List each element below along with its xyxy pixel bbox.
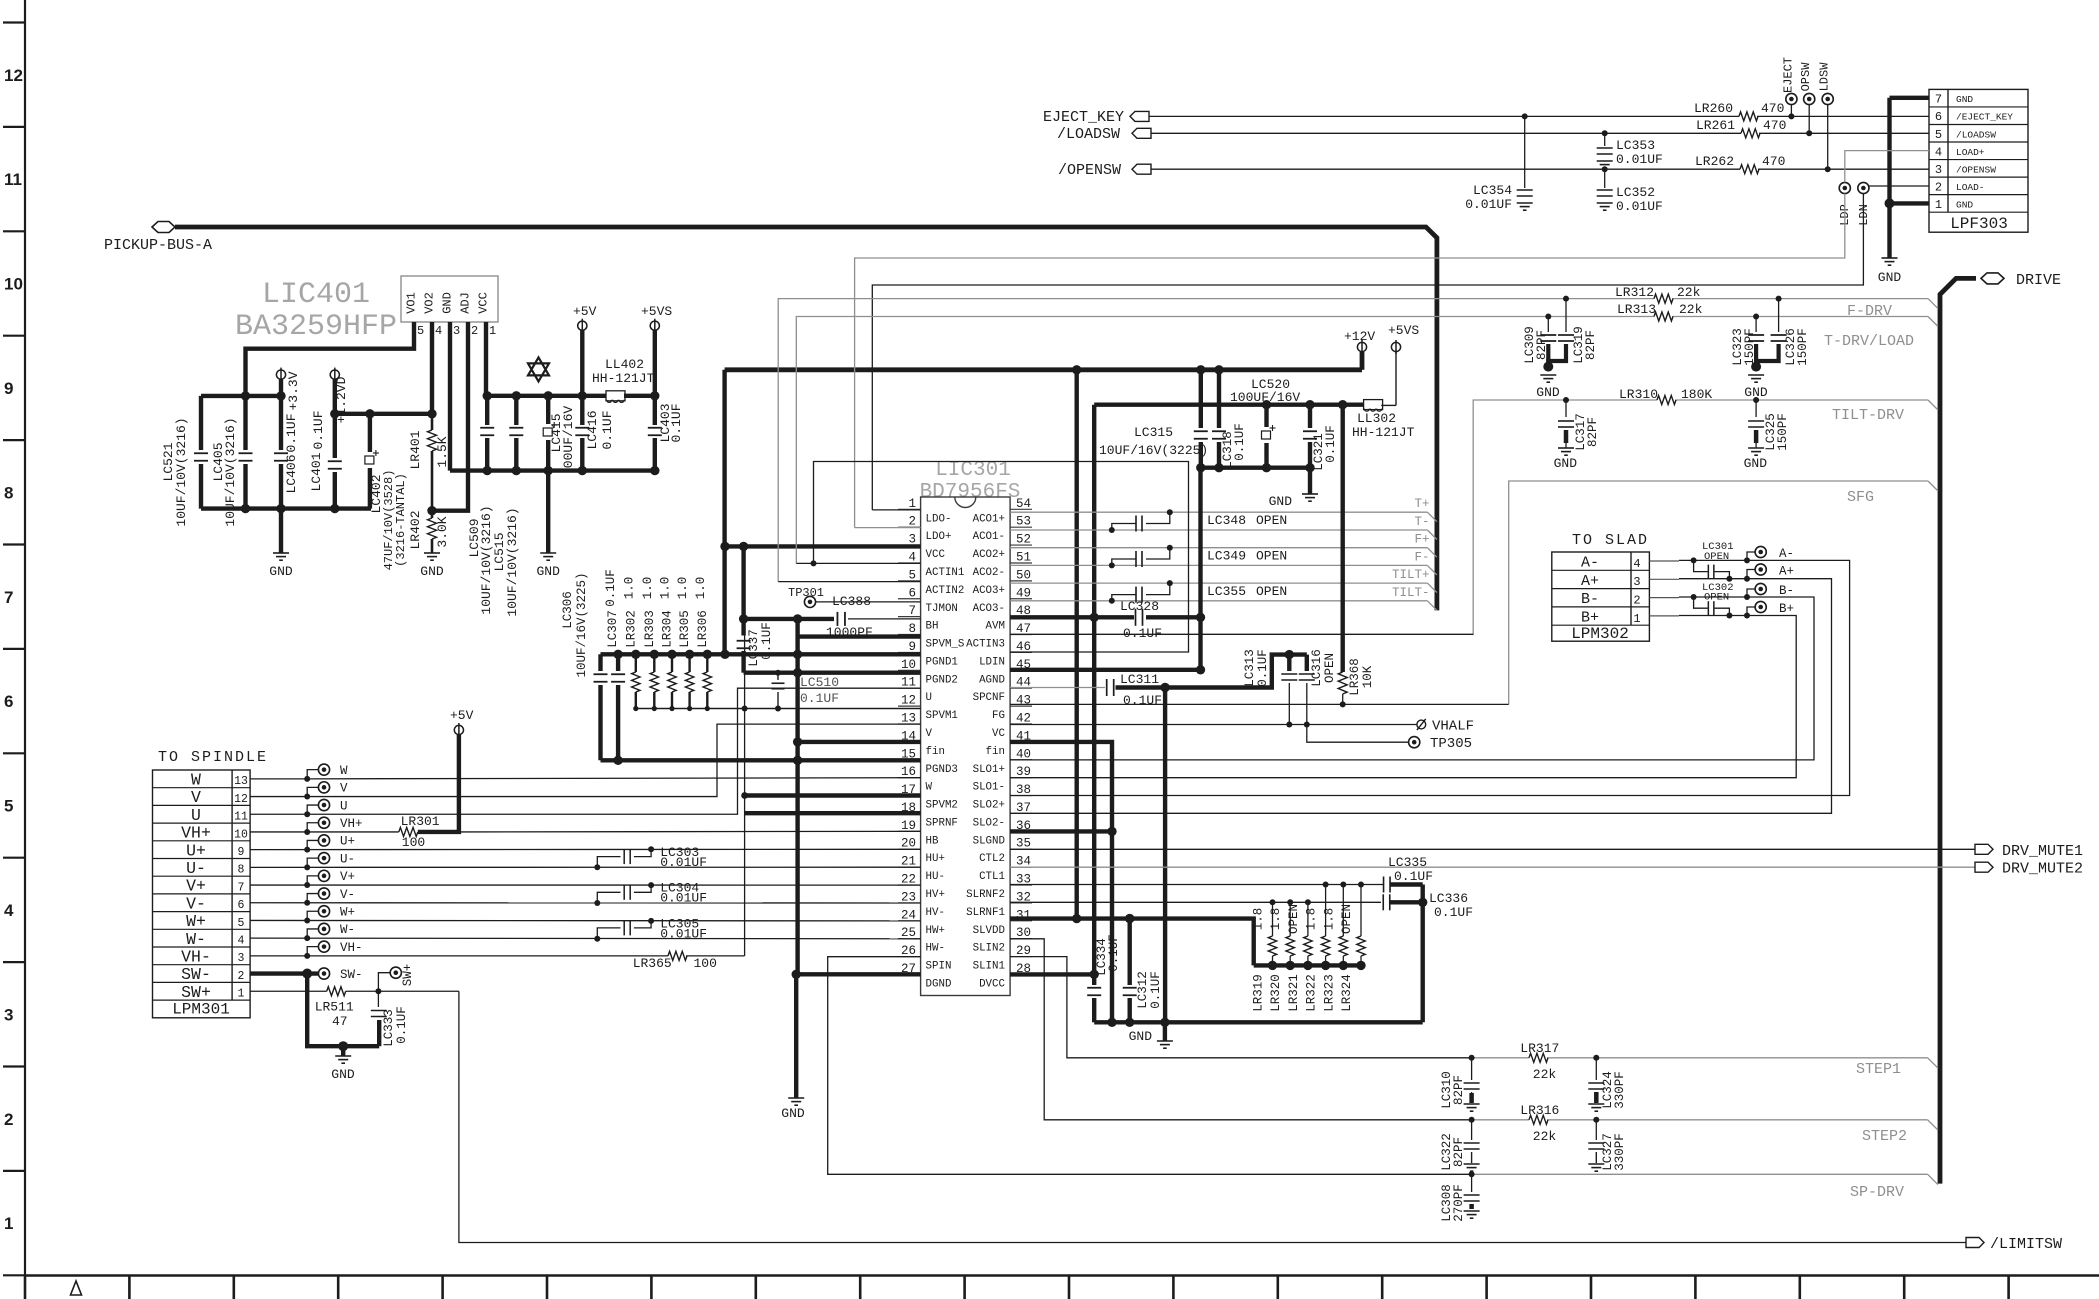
svg-text:42: 42	[1016, 711, 1031, 725]
svg-text:5: 5	[1935, 128, 1942, 142]
wire A- to SLO2+ pin38 loop	[1010, 560, 1850, 795]
wire W- row to HW- pin25	[250, 937, 921, 940]
wire ACTIN1 pin4	[796, 560, 920, 566]
svg-text:7: 7	[238, 881, 245, 894]
capacitor LC315 10UF/16V(3225)	[1099, 370, 1208, 468]
svg-text:SLO2-: SLO2-	[973, 817, 1005, 829]
wire VC pin42 VHALF net	[1010, 722, 1417, 728]
svg-text:0.01UF: 0.01UF	[660, 926, 707, 941]
ground GND for LC415 branch	[536, 471, 560, 579]
svg-text:1: 1	[4, 1214, 13, 1233]
svg-text:U: U	[191, 806, 201, 825]
svg-text:VH+: VH+	[340, 817, 363, 831]
svg-text:82PF: 82PF	[1452, 1075, 1466, 1105]
testpoint SW-	[318, 968, 362, 982]
svg-text:12: 12	[234, 793, 248, 806]
svg-text:6: 6	[908, 586, 916, 600]
supply +5V terminal	[573, 304, 597, 396]
svg-text:49: 49	[1016, 586, 1031, 600]
svg-text:10UF/16V(3225): 10UF/16V(3225)	[575, 572, 589, 677]
wire LIC401 pin4 VO2 down	[430, 322, 434, 414]
svg-text:00UF/16V: 00UF/16V	[561, 406, 576, 469]
capacitor LC352 0.01UF	[1597, 169, 1663, 214]
svg-text:LC337: LC337	[747, 629, 761, 667]
svg-text:0.1UF: 0.1UF	[1149, 971, 1163, 1009]
wire VCC pin3 net	[720, 542, 920, 551]
wire SW- thick to gnd	[250, 969, 379, 1052]
ground GND LPF303	[1878, 258, 1902, 285]
svg-text:AGND: AGND	[979, 674, 1005, 686]
wire LDO+ pin2	[855, 527, 921, 529]
wire fin pin14	[798, 740, 921, 744]
capacitor LC324 330PF	[1588, 1058, 1627, 1111]
capacitor LC319 82PF	[1548, 299, 1598, 367]
capacitor LC304 0.01UF	[594, 881, 707, 906]
wire W row to pin16	[250, 778, 921, 779]
wire thick vertical x1130 LC312	[1125, 914, 1134, 1027]
svg-text:SW-: SW-	[340, 968, 363, 982]
resistor LR368 10K	[1338, 658, 1375, 704]
testpoint B+	[1747, 601, 1794, 616]
svg-text:STEP2: STEP2	[1862, 1128, 1907, 1145]
svg-text:LC333: LC333	[382, 1009, 396, 1047]
wire LC315 group bottom rail	[1196, 463, 1315, 472]
wire DVCC pin28	[1010, 972, 1094, 976]
svg-text:LR316: LR316	[1520, 1103, 1559, 1118]
svg-text:12: 12	[901, 694, 916, 708]
svg-text:OPSW: OPSW	[1799, 62, 1813, 92]
svg-text:5: 5	[908, 568, 916, 582]
svg-text:BH: BH	[926, 621, 939, 633]
resistor LR313 22k	[1617, 302, 1703, 321]
capacitor LC333 0.1UF	[371, 991, 409, 1047]
svg-text:EJECT_KEY: EJECT_KEY	[1043, 109, 1124, 126]
svg-text:ACTIN1: ACTIN1	[926, 567, 965, 579]
wire LPM302 pin1 B+ row	[1649, 613, 1757, 619]
capacitor LC416 0.1UF	[575, 396, 615, 471]
capacitor LC311 0.1UF on SPCNF	[1010, 672, 1170, 708]
wire DGND pin27	[792, 970, 921, 979]
svg-text:LR304: LR304	[661, 610, 675, 648]
svg-text:LL402: LL402	[605, 357, 644, 372]
wire LR301 to +5V	[418, 735, 459, 832]
svg-text:34: 34	[1016, 855, 1031, 869]
svg-text:1: 1	[1935, 198, 1942, 212]
svg-text:/OPENSW: /OPENSW	[1956, 164, 1996, 175]
capacitor LC317 82PF	[1554, 400, 1600, 471]
svg-text:0.01UF: 0.01UF	[1616, 152, 1663, 167]
svg-text:3: 3	[238, 952, 245, 965]
svg-text:LR401: LR401	[408, 430, 423, 469]
svg-text:B-: B-	[1581, 591, 1599, 608]
resistor bank bottom rail	[1254, 961, 1366, 970]
svg-text:ACO1+: ACO1+	[973, 513, 1005, 525]
wire LDP to LOAD+ and LDO+	[855, 151, 1929, 528]
svg-text:ACO3+: ACO3+	[973, 585, 1005, 597]
svg-text:SLRNF1: SLRNF1	[966, 907, 1005, 919]
wire CTL2 pin35 DRV_MUTE1	[1010, 848, 1975, 850]
svg-text:LC306: LC306	[561, 591, 575, 629]
svg-text:LR324: LR324	[1340, 974, 1354, 1012]
svg-text:U-: U-	[340, 852, 355, 866]
svg-text:2: 2	[1633, 594, 1640, 608]
ground GND LC315 group	[1269, 468, 1318, 509]
wire LC335/LC336 to gnd rail	[1418, 885, 1427, 1023]
wire U- row to HU- pin21	[250, 866, 921, 868]
svg-text:22: 22	[901, 872, 916, 886]
svg-text:T+: T+	[1414, 497, 1429, 511]
svg-text:LPF303: LPF303	[1950, 215, 2008, 233]
ground GND for LC406 branch	[269, 509, 293, 579]
svg-text:7: 7	[1935, 93, 1942, 107]
capacitor LC301 OPEN	[1694, 541, 1734, 579]
wire +1.2VD rail	[330, 409, 437, 418]
svg-text:4: 4	[4, 901, 14, 920]
resistor LR511 47	[315, 987, 354, 1029]
svg-text:LC354: LC354	[1473, 183, 1512, 198]
inductor LL302 HH-121JT	[1352, 400, 1415, 440]
svg-text:SPIN: SPIN	[926, 961, 952, 973]
wire PGND2 pin10	[744, 670, 921, 676]
svg-text:150PF: 150PF	[1776, 413, 1790, 451]
svg-text:51: 51	[1016, 550, 1031, 564]
wire PGND vertical bus x798	[793, 619, 802, 974]
svg-text:3.0K: 3.0K	[435, 516, 450, 547]
wire U+ row to HU+ pin20	[250, 848, 921, 850]
svg-text:LR313: LR313	[1617, 302, 1656, 317]
svg-text:LC315: LC315	[1134, 425, 1173, 440]
svg-text:1.0: 1.0	[676, 577, 690, 600]
terminal /LOADSW	[1057, 126, 1151, 143]
wire B+ to SLO1- pin39 loop	[1010, 616, 1796, 778]
svg-text:0.1UF: 0.1UF	[1123, 626, 1162, 641]
svg-text:43: 43	[1016, 694, 1031, 708]
svg-text:0.01UF: 0.01UF	[1465, 197, 1512, 212]
svg-text:SW+: SW+	[181, 983, 211, 1002]
svg-text:GND: GND	[1956, 94, 1973, 105]
svg-text:470: 470	[1763, 118, 1786, 133]
svg-text:SFG: SFG	[1847, 489, 1874, 506]
svg-text:DRV_MUTE2: DRV_MUTE2	[2002, 861, 2083, 878]
wire LIC401 pin5 VO1 to +3.3V rail	[246, 322, 415, 396]
svg-text:LR317: LR317	[1520, 1041, 1559, 1056]
svg-text:GND: GND	[1129, 1029, 1153, 1044]
ground GND SW-	[331, 1046, 355, 1082]
capacitor LC406 0.1UF	[274, 396, 299, 509]
svg-text:1.8: 1.8	[1322, 908, 1336, 931]
drawing frame left ruler	[3, 0, 25, 1276]
capacitor LC318 0.1UF	[1212, 370, 1247, 469]
svg-text:270PF: 270PF	[1452, 1184, 1466, 1222]
svg-text:ACO2+: ACO2+	[973, 549, 1005, 561]
wire LPF303 GND bus	[1885, 98, 1930, 258]
svg-text:DRIVE: DRIVE	[2016, 272, 2061, 289]
wire DRIVE bus vertical	[1940, 278, 1976, 1183]
testpoint B-	[1747, 583, 1794, 598]
ground GND for DGND	[781, 974, 805, 1121]
svg-text:0.1UF: 0.1UF	[669, 403, 684, 442]
svg-text:GND: GND	[1956, 199, 1973, 210]
svg-text:5: 5	[4, 797, 13, 816]
resistor LR401 1.5K	[408, 414, 450, 516]
svg-text:ACTIN2: ACTIN2	[926, 585, 965, 597]
svg-text:HH-121JT: HH-121JT	[1352, 425, 1415, 440]
svg-text:7: 7	[908, 604, 916, 618]
svg-text:11: 11	[4, 170, 22, 189]
supply +1.2VD	[330, 368, 349, 424]
wire TILT- row	[1010, 586, 1437, 611]
svg-text:22k: 22k	[1533, 1129, 1557, 1144]
ground GND LC323/LC326	[1744, 362, 1768, 400]
svg-text:50: 50	[1016, 568, 1031, 582]
wire SLRNF1 pin32 row	[1010, 899, 1381, 905]
capacitor LC335 0.1UF	[1384, 855, 1433, 893]
svg-text:TJMON: TJMON	[926, 603, 958, 615]
capacitor LC354 0.01UF	[1465, 116, 1533, 212]
svg-text:LR511: LR511	[315, 1000, 354, 1015]
capacitor LC323 150PF	[1731, 317, 1764, 367]
svg-text:LR368: LR368	[1348, 658, 1362, 696]
svg-text:U: U	[340, 799, 348, 813]
svg-text:6: 6	[238, 899, 245, 912]
svg-text:V: V	[926, 728, 933, 740]
svg-text:1: 1	[489, 324, 496, 338]
capacitor LC349 OPEN	[1109, 545, 1287, 569]
wire SPCNF vertical to gnd rail	[1163, 688, 1167, 1023]
svg-text:9: 9	[4, 379, 13, 398]
svg-text:TILT-DRV: TILT-DRV	[1832, 407, 1904, 424]
svg-text:LR312: LR312	[1615, 285, 1654, 300]
svg-text:GND: GND	[420, 564, 444, 579]
svg-text:ACO2-: ACO2-	[973, 567, 1005, 579]
svg-text:TO SLAD: TO SLAD	[1572, 532, 1649, 549]
svg-text:1.0: 1.0	[659, 577, 673, 600]
terminal /OPENSW	[1058, 162, 1151, 179]
wire SFG net	[1509, 481, 1938, 704]
svg-text:54: 54	[1016, 497, 1031, 511]
svg-text:CTL1: CTL1	[979, 871, 1005, 883]
svg-text:40: 40	[1016, 747, 1031, 761]
svg-text:2: 2	[908, 515, 916, 529]
wire LC520 rail y404	[1094, 400, 1363, 409]
svg-text:100: 100	[694, 956, 717, 971]
svg-text:SLIN2: SLIN2	[973, 943, 1005, 955]
svg-text:FG: FG	[992, 710, 1005, 722]
svg-text:LC312: LC312	[1136, 971, 1150, 1009]
capacitor LC405 10UF/10V(3216)	[211, 396, 253, 527]
svg-text:24: 24	[901, 908, 916, 922]
wire LDIN pin46 loop	[814, 462, 1189, 653]
wire PICKUP-BUS-A bus	[175, 227, 1437, 610]
capacitor LC328 0.1UF	[1120, 599, 1162, 641]
svg-text:23: 23	[901, 890, 916, 904]
testpoint OPSW	[1799, 62, 1815, 133]
wire thick x1343 from rail404 to LR368	[1340, 405, 1344, 672]
capacitor LC313 0.1UF	[1243, 649, 1297, 724]
svg-text:LR365: LR365	[633, 956, 672, 971]
svg-text:4: 4	[1633, 557, 1640, 571]
capacitor LC348 OPEN	[1109, 509, 1287, 533]
svg-text:/LOADSW: /LOADSW	[1057, 126, 1120, 143]
capacitor LC308 270PF	[1440, 1174, 1480, 1221]
svg-text:7: 7	[4, 588, 13, 607]
wire thick vertical x1112 fin-gnd	[1010, 742, 1117, 1027]
svg-text:U-: U-	[186, 859, 206, 878]
svg-text:TP305: TP305	[1430, 736, 1472, 752]
wire LPM302 pin4 A- row	[1649, 557, 1757, 563]
svg-text:EJECT: EJECT	[1781, 57, 1795, 93]
svg-text:9: 9	[238, 846, 245, 859]
svg-text:W: W	[191, 771, 201, 790]
svg-text:DGND: DGND	[926, 978, 952, 990]
svg-text:10: 10	[4, 275, 23, 294]
testpoint LDSW	[1818, 62, 1834, 169]
svg-text:LC335: LC335	[1388, 855, 1427, 870]
svg-text:LR303: LR303	[643, 610, 657, 648]
svg-text:LC355: LC355	[1207, 584, 1246, 599]
svg-text:330PF: 330PF	[1613, 1071, 1627, 1109]
svg-text:VCC: VCC	[477, 292, 491, 314]
svg-text:0.1UF: 0.1UF	[800, 691, 839, 706]
svg-text:82PF: 82PF	[1584, 330, 1598, 360]
svg-text:2: 2	[471, 324, 478, 338]
svg-text:LR261: LR261	[1696, 118, 1735, 133]
svg-text:0.01UF: 0.01UF	[660, 891, 707, 906]
svg-text:HH-121JT: HH-121JT	[592, 371, 655, 386]
svg-text:53: 53	[1016, 515, 1031, 529]
wire LIC401 pin1 VCC down	[484, 322, 488, 396]
svg-text:LC353: LC353	[1616, 138, 1655, 153]
svg-text:10UF/10V(3216): 10UF/10V(3216)	[174, 417, 189, 526]
wire LPM302 pin3 A+ row	[1649, 576, 1757, 582]
wire AVM pin48 net with LC328	[1010, 613, 1205, 622]
svg-text:A+: A+	[1581, 573, 1599, 590]
svg-text:3: 3	[453, 324, 460, 338]
svg-text:A-: A-	[1581, 555, 1599, 572]
svg-text:VO1: VO1	[405, 292, 419, 314]
capacitor LC509 10UF/10V(3216)	[467, 396, 494, 615]
svg-text:HV-: HV-	[926, 907, 945, 919]
svg-text:TO SPINDLE: TO SPINDLE	[158, 749, 268, 766]
ground GND LC309/LC319	[1536, 362, 1560, 400]
svg-text:LR321: LR321	[1287, 974, 1301, 1012]
resistor LR260 470	[1694, 101, 1784, 121]
testpoint LDP	[1838, 182, 1852, 225]
terminal DRV_MUTE2	[1975, 861, 2083, 878]
svg-text:GND: GND	[1878, 270, 1902, 285]
resistor LR262 470	[1695, 154, 1785, 174]
svg-text:VO2: VO2	[423, 292, 437, 314]
svg-text:13: 13	[234, 775, 248, 788]
svg-text:U: U	[926, 692, 932, 704]
svg-text:2: 2	[238, 970, 245, 983]
svg-text:26: 26	[901, 944, 916, 958]
terminal DRV_MUTE1	[1975, 843, 2083, 860]
svg-text:2: 2	[4, 1110, 13, 1129]
capacitor LC353 0.01UF	[1597, 133, 1663, 168]
star mark	[528, 357, 549, 381]
svg-text:12: 12	[4, 66, 23, 85]
svg-text:LR320: LR320	[1269, 974, 1283, 1012]
svg-text:T-DRV/LOAD: T-DRV/LOAD	[1824, 333, 1914, 350]
svg-text:/OPENSW: /OPENSW	[1058, 162, 1121, 179]
terminal EJECT_KEY	[1043, 109, 1149, 126]
wire LDN to LOAD- and LDO-	[872, 186, 1929, 510]
svg-text:10: 10	[234, 828, 248, 841]
testpoint TP301 on TJMON	[788, 586, 921, 608]
svg-text:TILT-: TILT-	[1392, 586, 1430, 600]
svg-text:35: 35	[1016, 837, 1031, 851]
svg-text:HV+: HV+	[926, 889, 945, 901]
svg-text:(3216-TANTAL): (3216-TANTAL)	[394, 473, 408, 567]
wire /LOADSW net	[1151, 130, 1929, 136]
wire +12V rail y369	[725, 365, 1362, 654]
svg-text:/EJECT_KEY: /EJECT_KEY	[1956, 112, 2013, 123]
svg-text:8: 8	[238, 864, 245, 877]
servo driver IC LIC301 BD7956FS	[898, 459, 1032, 996]
wire SW+ row	[250, 988, 459, 994]
capacitor LC337 0.1UF	[737, 546, 774, 672]
wire F+ row	[1010, 533, 1437, 558]
wire /LIMITSW net	[459, 991, 1966, 1242]
svg-text:20: 20	[901, 837, 916, 851]
wire ACTIN3 pin47	[1010, 633, 1473, 635]
capacitor LC521 10UF/10V(3216)	[161, 396, 208, 527]
svg-text:30: 30	[1016, 926, 1031, 940]
svg-text:1.8: 1.8	[1305, 908, 1319, 931]
svg-text:LOAD+: LOAD+	[1956, 147, 1985, 158]
svg-text:25: 25	[901, 926, 916, 940]
capacitor LC515 10UF/10V(3216)	[492, 396, 523, 617]
wire FG pin43	[1010, 701, 1509, 707]
svg-text:LDSW: LDSW	[1818, 62, 1832, 92]
svg-text:1.8: 1.8	[1252, 908, 1266, 931]
svg-text:LR302: LR302	[624, 610, 638, 648]
svg-text:VH+: VH+	[181, 824, 211, 843]
svg-text:U+: U+	[186, 841, 206, 860]
supply +3.3V	[276, 368, 301, 411]
svg-text:LR306: LR306	[696, 610, 710, 648]
capacitor LC312 0.1UF	[1123, 971, 1163, 1022]
svg-text:fin: fin	[986, 746, 1005, 758]
capacitor LC402 47UF/10V(3528) tantal	[365, 414, 408, 571]
svg-text:LC348: LC348	[1207, 513, 1246, 528]
svg-text:LC336: LC336	[1429, 891, 1468, 906]
svg-text:DVCC: DVCC	[979, 978, 1005, 990]
svg-text:SPVM2: SPVM2	[926, 800, 958, 812]
svg-text:fin: fin	[926, 746, 945, 758]
testpoint A+	[1747, 564, 1794, 579]
resistor LR365 100	[633, 951, 717, 971]
svg-text:LR322: LR322	[1305, 974, 1319, 1012]
svg-text:330PF: 330PF	[1613, 1133, 1627, 1171]
svg-text:0.1UF: 0.1UF	[1394, 869, 1433, 884]
capacitor LC355 OPEN	[1109, 580, 1287, 604]
wire SPVM_S pin8	[798, 634, 921, 638]
terminal VHALF	[1417, 719, 1474, 735]
svg-text:LC316: LC316	[1310, 649, 1324, 687]
testpoints spindle W..VH-	[304, 764, 362, 959]
svg-text:V+: V+	[340, 870, 355, 884]
capacitor LC388 1000PF on BH	[739, 594, 921, 640]
svg-text:1.8: 1.8	[1269, 908, 1283, 931]
wire LIC401 pin2 ADJ down	[432, 322, 468, 511]
svg-text:SW-: SW-	[181, 965, 211, 984]
wire U row jog to pin11	[250, 688, 921, 814]
svg-text:LR402: LR402	[408, 510, 423, 549]
svg-text:1.5K: 1.5K	[435, 436, 450, 467]
wire T-DRV/LOAD net LR313	[796, 314, 1938, 564]
